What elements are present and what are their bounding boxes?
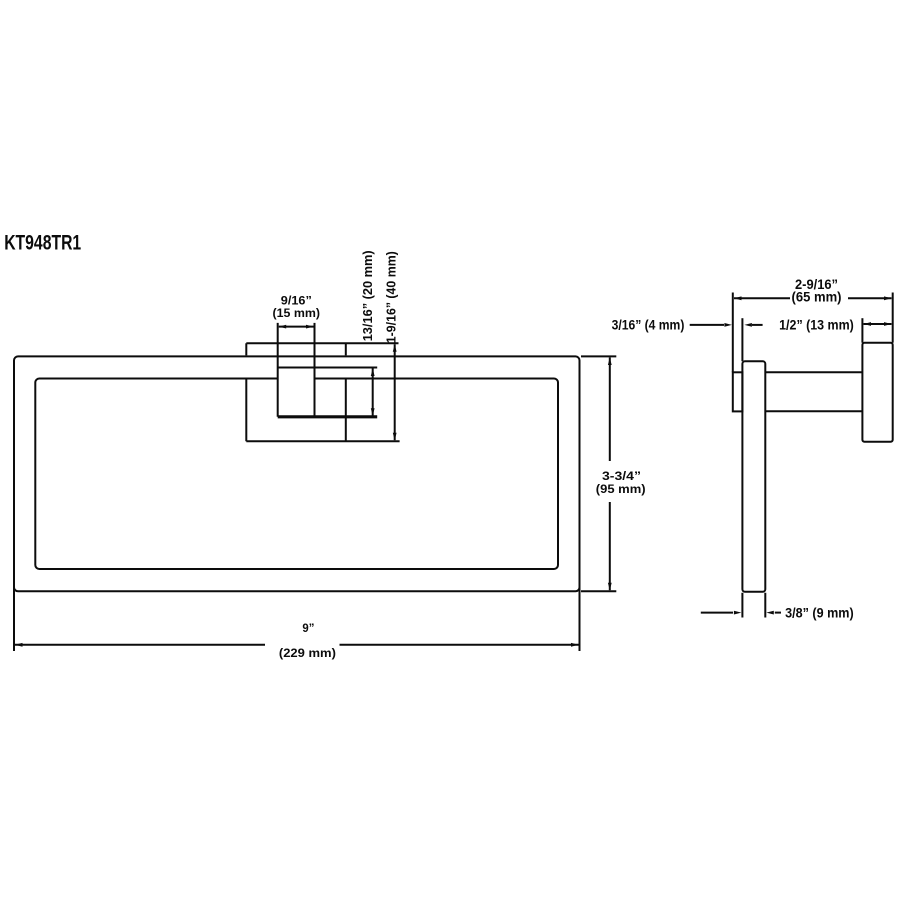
svg-text:13/16” (20 mm): 13/16” (20 mm) [360,250,375,341]
svg-text:(95 mm): (95 mm) [596,482,646,496]
svg-text:KT948TR1: KT948TR1 [4,231,81,254]
svg-text:(65 mm): (65 mm) [792,290,842,305]
svg-text:(15 mm): (15 mm) [273,306,321,320]
svg-text:(229 mm): (229 mm) [279,646,336,660]
svg-text:1-9/16” (40 mm): 1-9/16” (40 mm) [384,251,399,343]
svg-text:3/8” (9 mm): 3/8” (9 mm) [785,605,854,620]
svg-text:1/2” (13 mm): 1/2” (13 mm) [779,317,854,332]
svg-text:3/16” (4 mm): 3/16” (4 mm) [612,318,685,333]
svg-text:9”: 9” [302,621,314,635]
svg-text:3-3/4”: 3-3/4” [602,469,641,483]
